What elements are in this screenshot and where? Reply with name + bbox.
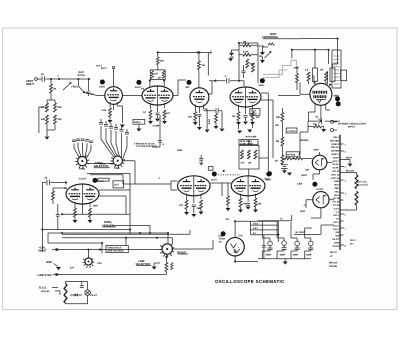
- wire to V1 grid: [84, 92, 105, 95]
- resistor R16 50K: [246, 59, 249, 68]
- vert input jack J1: [35, 78, 38, 81]
- svg-text:CAP: CAP: [97, 262, 102, 265]
- wire sweep drop links: [123, 174, 130, 215]
- ground cap bank: [136, 129, 141, 132]
- wire left branch: [39, 107, 44, 133]
- svg-text:SAW: SAW: [177, 149, 183, 152]
- ground hor sel: [152, 267, 157, 270]
- svg-text:OUT: OUT: [114, 184, 119, 187]
- ground V8 cathode: [238, 210, 243, 213]
- wire timing box leads: [248, 140, 250, 176]
- CRT bottom pins: [315, 104, 330, 118]
- tube V2 6AU7: [142, 86, 173, 105]
- ground battery: [282, 170, 287, 173]
- pin stubs V7: [187, 194, 202, 203]
- node CRT edge: [329, 84, 331, 86]
- ground V9 cathode: [73, 220, 78, 223]
- diode D1: [75, 294, 78, 297]
- resistor R25 intensity chain: [281, 112, 284, 121]
- wire R41 leads: [53, 188, 66, 204]
- wire V1 screen: [117, 106, 122, 123]
- resistor R37 timing: [247, 150, 250, 159]
- knob position: [260, 78, 265, 83]
- capacitor C24 row a: [72, 140, 76, 142]
- wire ladder to V4: [239, 81, 244, 86]
- svg-text:1M: 1M: [259, 55, 262, 58]
- label FOCUS boxed: [286, 128, 297, 133]
- resistor R35 between tubes: [227, 196, 230, 205]
- capacitor C19 bank: [125, 133, 129, 135]
- capacitor C11 sweep: [200, 155, 202, 159]
- knob fuse: [221, 231, 226, 236]
- wire SW4 fan 2: [78, 143, 81, 157]
- tube V4 6AU7 output: [230, 87, 261, 107]
- ground chassis: [56, 267, 61, 270]
- tube V7 sweep 6AU7: [178, 176, 211, 196]
- connector J2: [331, 120, 334, 123]
- svg-text:VERT: VERT: [78, 71, 85, 74]
- wire bleeder bottom: [340, 205, 357, 210]
- wire V3 screen right: [204, 109, 208, 129]
- wire crt pin link: [308, 112, 315, 121]
- rotary switch SW3 hor sel: [162, 244, 172, 254]
- wire SW1 fan 5: [120, 133, 122, 157]
- svg-text:5Y3: 5Y3: [239, 235, 244, 238]
- resistor box RB1: [313, 68, 318, 81]
- plate load box V2: [150, 70, 165, 80]
- svg-text:2A: 2A: [219, 240, 222, 243]
- svg-text:FOC 11: FOC 11: [331, 173, 340, 176]
- svg-text:HTR 7: HTR 7: [332, 160, 339, 163]
- capacitor C3 bypass: [156, 113, 160, 115]
- bus junction dots: [61, 232, 63, 234]
- svg-text:150K: 150K: [93, 205, 99, 208]
- svg-text:10K: 10K: [256, 116, 261, 119]
- timing note box: [106, 246, 128, 253]
- filter cap E3: [295, 241, 300, 246]
- knob astig: [335, 96, 340, 101]
- svg-text:HV 19: HV 19: [333, 201, 340, 204]
- svg-text:47K: 47K: [154, 73, 159, 76]
- pin stubs V4: [239, 105, 253, 114]
- resistor R19 V4: [251, 112, 254, 121]
- capacitor C25 row b: [76, 139, 80, 141]
- wire deflection feed upper: [261, 93, 268, 108]
- wire V5 V6 couple: [313, 174, 320, 180]
- pin stubs V1: [110, 102, 117, 110]
- SW4 radial contacts: [75, 155, 89, 168]
- ground V1 cathode: [108, 120, 113, 123]
- resistor R29 horizontal chain: [295, 157, 303, 160]
- capacitor C18 bank: [120, 130, 124, 132]
- wire cal top line: [42, 182, 66, 252]
- strip ticks right: [340, 144, 344, 245]
- potentiometer vert centering: [265, 52, 272, 59]
- svg-text:INTENSITY MODULATION: INTENSITY MODULATION: [338, 123, 366, 126]
- capacitor C27 row d: [85, 140, 89, 142]
- svg-text:GRN: GRN: [334, 180, 339, 183]
- resistor R10 V2 cathode: [149, 110, 152, 119]
- svg-text:BLU: BLU: [334, 194, 339, 197]
- timing box: [239, 145, 259, 169]
- svg-text:1M: 1M: [275, 160, 278, 163]
- svg-text:B.S.S.: B.S.S.: [39, 286, 47, 289]
- anode cage rows: [334, 56, 340, 84]
- svg-text:6SN7: 6SN7: [314, 149, 320, 152]
- wire timing to divider: [259, 157, 268, 159]
- resistor R38 timing: [254, 150, 257, 159]
- box label at V9 knob: [98, 178, 109, 181]
- filter bank frame: [258, 215, 312, 259]
- svg-text:ON: ON: [226, 218, 230, 221]
- knob intensity: [267, 171, 272, 176]
- resistor R41 left: [52, 191, 55, 200]
- svg-text:2.2M: 2.2M: [297, 183, 302, 186]
- svg-text:VOLT: VOLT: [251, 110, 258, 113]
- CRT deflection plate stack: [313, 91, 327, 98]
- svg-text:TAKES IN 0.5: TAKES IN 0.5: [107, 247, 122, 250]
- svg-text:10K: 10K: [305, 169, 310, 172]
- svg-text:B+ 350V: B+ 350V: [296, 231, 305, 234]
- svg-text:PIN 1: PIN 1: [333, 136, 339, 139]
- ground ladder 1: [229, 53, 234, 56]
- svg-text:GRID 2: GRID 2: [331, 143, 339, 146]
- svg-text:INTENS: INTENS: [287, 154, 296, 157]
- svg-text:30K: 30K: [276, 116, 281, 119]
- label FREQ SEL boxed: [133, 119, 145, 124]
- wire V9 outputs right: [99, 190, 130, 214]
- CRT socket pin labels: [330, 136, 340, 248]
- pin stubs V3: [195, 105, 203, 114]
- wire SW1 fan 2: [106, 128, 115, 156]
- wire SW1 fan 1: [101, 126, 114, 157]
- wire tube center leads: [83, 86, 249, 204]
- wire SW4 fan 4: [85, 143, 87, 157]
- battery B1: [281, 165, 288, 170]
- resistor R31 V7: [185, 200, 188, 209]
- wire black tap: [340, 173, 357, 175]
- wire sweep horizontals: [48, 233, 172, 254]
- resistor R44 ballast: [64, 283, 67, 303]
- resistor R27: [281, 155, 284, 164]
- pin stubs V9: [75, 202, 90, 214]
- resistor R6 on V1 cathode: [109, 108, 112, 117]
- svg-text:1M: 1M: [248, 162, 251, 165]
- wire sync lead: [109, 163, 114, 165]
- capacitor C26 row c: [81, 139, 85, 141]
- svg-text:CONT: CONT: [317, 188, 324, 191]
- ground vert centering 1: [260, 52, 265, 55]
- resistor R17: [252, 63, 255, 72]
- svg-text:40MF: 40MF: [280, 254, 286, 257]
- svg-text:2M: 2M: [276, 140, 279, 143]
- svg-text:6.3 V: 6.3 V: [334, 207, 340, 210]
- svg-text:750V: 750V: [253, 222, 259, 225]
- wire R1 to divider: [47, 93, 55, 103]
- rotary switch SW2 sync sel: [85, 258, 92, 265]
- svg-text:115V 60: 115V 60: [41, 290, 50, 293]
- wire transformer right: [277, 221, 279, 242]
- resistor R24 bleeder: [355, 191, 358, 205]
- resistor R3: [54, 103, 57, 112]
- resistor R36 timing: [241, 150, 244, 159]
- svg-text:6AU7: 6AU7: [259, 84, 266, 87]
- SW2 radial contacts: [83, 259, 95, 269]
- svg-text:1M: 1M: [320, 69, 323, 72]
- svg-text:VERT: VERT: [301, 174, 308, 177]
- svg-text:COMP: COMP: [153, 124, 160, 127]
- SW3 radial contacts: [159, 244, 174, 258]
- wire crt cathode down: [320, 118, 322, 121]
- svg-text:D3 PL: D3 PL: [333, 163, 340, 166]
- wire deflection feed lower: [261, 100, 273, 108]
- ground vert centering 2: [260, 60, 265, 63]
- resistor R39 V9: [74, 208, 77, 217]
- svg-text:470K: 470K: [243, 50, 249, 53]
- anode cage rect: [332, 50, 341, 88]
- svg-text:750 V: 750 V: [333, 214, 339, 217]
- wire SW1 fan 3: [111, 130, 117, 156]
- power transformer T1 windings: [235, 221, 278, 234]
- wire gnd arrow: [54, 264, 59, 267]
- wire vert centering underline: [263, 38, 301, 40]
- wire CRT left feed: [300, 83, 310, 95]
- svg-text:INPUT: INPUT: [26, 83, 34, 86]
- svg-text:INPUT: INPUT: [348, 126, 355, 129]
- svg-text:FREQ: FREQ: [134, 121, 141, 124]
- wire SW4 fan 5: [86, 145, 91, 159]
- svg-text:6.3V: 6.3V: [253, 227, 258, 230]
- svg-text:47K: 47K: [179, 204, 184, 207]
- wire V3 plate coupling: [208, 52, 239, 94]
- wire SW2 stem: [88, 250, 90, 258]
- svg-text:EXT: EXT: [70, 267, 75, 270]
- svg-text:HEATER: HEATER: [330, 139, 339, 142]
- capacitor C2: [86, 92, 90, 96]
- resistor R4: [46, 115, 49, 124]
- pin stubs V8: [241, 194, 256, 202]
- potentiometer arrow FREQ: [63, 83, 71, 91]
- wire mains leads: [52, 288, 60, 296]
- wire anode bus: [292, 50, 329, 59]
- capacitor C5 coupling: [227, 78, 230, 83]
- svg-text:PILOT: PILOT: [332, 238, 339, 241]
- resistor R46 under V3: [215, 114, 218, 123]
- wire cal input line: [52, 248, 162, 250]
- resistor R30 15K: [314, 125, 322, 128]
- resistor R5: [54, 115, 57, 124]
- resistor R33 V8: [239, 198, 242, 207]
- capacitor C10 V8: [246, 204, 250, 206]
- wire sweep bus: [171, 181, 178, 190]
- V6 pins: [306, 200, 334, 218]
- resistor R40 V9 right: [89, 208, 92, 217]
- svg-text:D4 PL: D4 PL: [333, 167, 340, 170]
- resistor R14 horizontal: [243, 44, 251, 47]
- svg-text:15K: 15K: [313, 123, 318, 126]
- capacitor C12: [47, 180, 49, 186]
- svg-text:BLK: BLK: [334, 184, 339, 187]
- svg-text:TRANS: TRANS: [329, 265, 337, 268]
- wire to grounds: [231, 50, 239, 58]
- label INTENSITY boxed: [286, 152, 299, 157]
- resistor R21: [325, 72, 328, 81]
- ground V9 right: [88, 220, 93, 223]
- V5 internals: [315, 159, 321, 167]
- wire SW1 fan 4: [116, 131, 119, 156]
- resistor R20: [307, 72, 310, 81]
- ground V1 screen: [120, 125, 125, 128]
- wire gray staircase 1: [263, 60, 297, 74]
- wire box to B+: [150, 65, 164, 87]
- resistor R26: [281, 137, 284, 146]
- svg-text:40MF: 40MF: [306, 254, 312, 257]
- svg-text:INT 10: INT 10: [332, 170, 340, 173]
- svg-text:6AU7: 6AU7: [266, 179, 273, 182]
- tube V10 5Y3 rectifier: [226, 238, 244, 256]
- wire B+ line: [294, 225, 334, 234]
- wire crt left pin run: [278, 95, 300, 97]
- svg-text:BLACK: BLACK: [346, 170, 354, 173]
- ground V4 mid: [243, 122, 248, 125]
- svg-text:22K: 22K: [258, 203, 263, 206]
- ground attenuator: [45, 137, 50, 140]
- ground divider: [287, 173, 292, 176]
- rotary switch SW4 freq coarse: [78, 157, 87, 166]
- svg-text:MATCH: MATCH: [329, 262, 337, 265]
- tube V9 sweep amp: [66, 184, 99, 204]
- filter cap E1: [268, 241, 273, 246]
- resistor R15 horizontal: [243, 53, 251, 56]
- svg-text:CATH: CATH: [333, 156, 339, 159]
- wire pilot net: [66, 282, 88, 304]
- ground R46: [214, 126, 219, 129]
- tube V1 6AU6: [105, 87, 123, 105]
- resistor R9 220K: [156, 57, 159, 65]
- wire R42 leads: [165, 254, 167, 274]
- svg-text:PILOT: PILOT: [330, 251, 337, 254]
- resistor R11: [163, 110, 166, 119]
- resistor R45 centering: [268, 43, 274, 45]
- svg-text:CONT GRID: CONT GRID: [240, 142, 253, 145]
- capacitor C14 bank: [99, 123, 103, 125]
- ground V2 right: [162, 121, 167, 124]
- svg-text:HOR AMP: HOR AMP: [246, 136, 257, 139]
- knob hold: [212, 172, 217, 177]
- svg-text:1M: 1M: [202, 64, 205, 67]
- pin stubs V2: [151, 103, 165, 112]
- svg-text:5BP1: 5BP1: [334, 95, 340, 98]
- svg-text:HEAT: HEAT: [346, 157, 353, 160]
- label HOR FREQ boxed: [239, 140, 258, 145]
- ground V4 deep 1: [237, 131, 242, 134]
- svg-text:CT 20: CT 20: [333, 204, 340, 207]
- capacitor C13: [57, 204, 59, 215]
- CRT base detail: [316, 100, 326, 103]
- svg-text:GND: GND: [334, 241, 339, 244]
- capacitor C1: [42, 76, 44, 82]
- wire V10 plate: [234, 221, 236, 237]
- wire V7 plate to V8 grid: [210, 183, 231, 196]
- node ladder bottom: [238, 80, 240, 82]
- wire V1 plate to V2: [122, 95, 142, 97]
- svg-text:DATA: DATA: [251, 113, 257, 116]
- resistor R42 hor: [165, 263, 168, 272]
- svg-text:GND: GND: [46, 261, 52, 264]
- wire intensity chain: [282, 157, 312, 159]
- voltage note box V4: [250, 109, 260, 116]
- CRT top pins: [313, 76, 315, 84]
- wire switch outputs right: [87, 164, 130, 175]
- svg-text:6AU7: 6AU7: [211, 179, 218, 182]
- svg-text:CHAS: CHAS: [333, 245, 340, 248]
- svg-text:ANODE: ANODE: [331, 150, 340, 153]
- svg-text:SOLT: SOLT: [101, 67, 108, 70]
- node input bus: [50, 78, 52, 80]
- resistor R8 1M: [162, 71, 164, 79]
- resistor R12 1M grid V3: [198, 52, 200, 60]
- svg-text:FINE: FINE: [114, 167, 120, 170]
- gain trim box: [208, 167, 213, 171]
- ground V3 mid: [197, 127, 202, 130]
- svg-text:50K: 50K: [41, 118, 46, 121]
- wire V2 to V3: [173, 80, 186, 96]
- capacitor C23 comp: [158, 141, 162, 143]
- svg-text:INPUT: INPUT: [39, 250, 47, 253]
- capacitor C4 V3: [197, 115, 201, 117]
- wire gray staircase 2: [263, 70, 288, 78]
- ground V8 mid: [246, 207, 251, 210]
- ground V7 right: [199, 212, 204, 215]
- knob sync gain: [187, 80, 192, 85]
- svg-text:115 V: 115 V: [333, 228, 339, 231]
- svg-text:5 WAVES IN 10 CM: 5 WAVES IN 10 CM: [134, 143, 154, 146]
- ground filter bank: [283, 262, 288, 265]
- capacitor C21: [262, 246, 266, 248]
- wire divider bottom: [47, 124, 55, 136]
- wire attenuator drop: [50, 79, 52, 84]
- wire cap bank gnd: [101, 119, 139, 133]
- svg-text:115 V: 115 V: [333, 224, 339, 227]
- svg-text:HOR: HOR: [300, 210, 305, 213]
- tube V8 sweep 6AU7: [231, 176, 265, 196]
- ground V4 cathode: [236, 122, 241, 125]
- wire vernier link: [113, 225, 150, 233]
- wire heater tap: [340, 160, 350, 164]
- resistor R22: [296, 74, 299, 83]
- ground V7 mid: [191, 214, 196, 217]
- resistor R23 bleeder: [355, 175, 358, 189]
- wire dashes coupling: [218, 174, 240, 176]
- wire sw1 to sweep bus: [122, 161, 171, 184]
- V10 internals: [231, 244, 240, 254]
- wire B+ top line: [158, 51, 211, 57]
- svg-text:LINE SYNC: LINE SYNC: [38, 274, 52, 277]
- wire divider verticals: [268, 108, 282, 171]
- filter cap E2: [282, 241, 287, 246]
- strip right pin numbers: [345, 144, 348, 248]
- ground V2 cathode: [148, 121, 153, 124]
- CRT socket strip bar: [339, 135, 341, 250]
- svg-text:RED: RED: [334, 187, 339, 190]
- svg-text:150K: 150K: [208, 119, 211, 125]
- wire V1 plate up: [113, 69, 115, 87]
- capacitor C7 V4: [244, 116, 248, 118]
- capacitor C6: [242, 71, 246, 73]
- ground V4 deep 2: [247, 130, 252, 133]
- svg-text:40MF: 40MF: [293, 254, 299, 257]
- wire line sync: [53, 273, 166, 275]
